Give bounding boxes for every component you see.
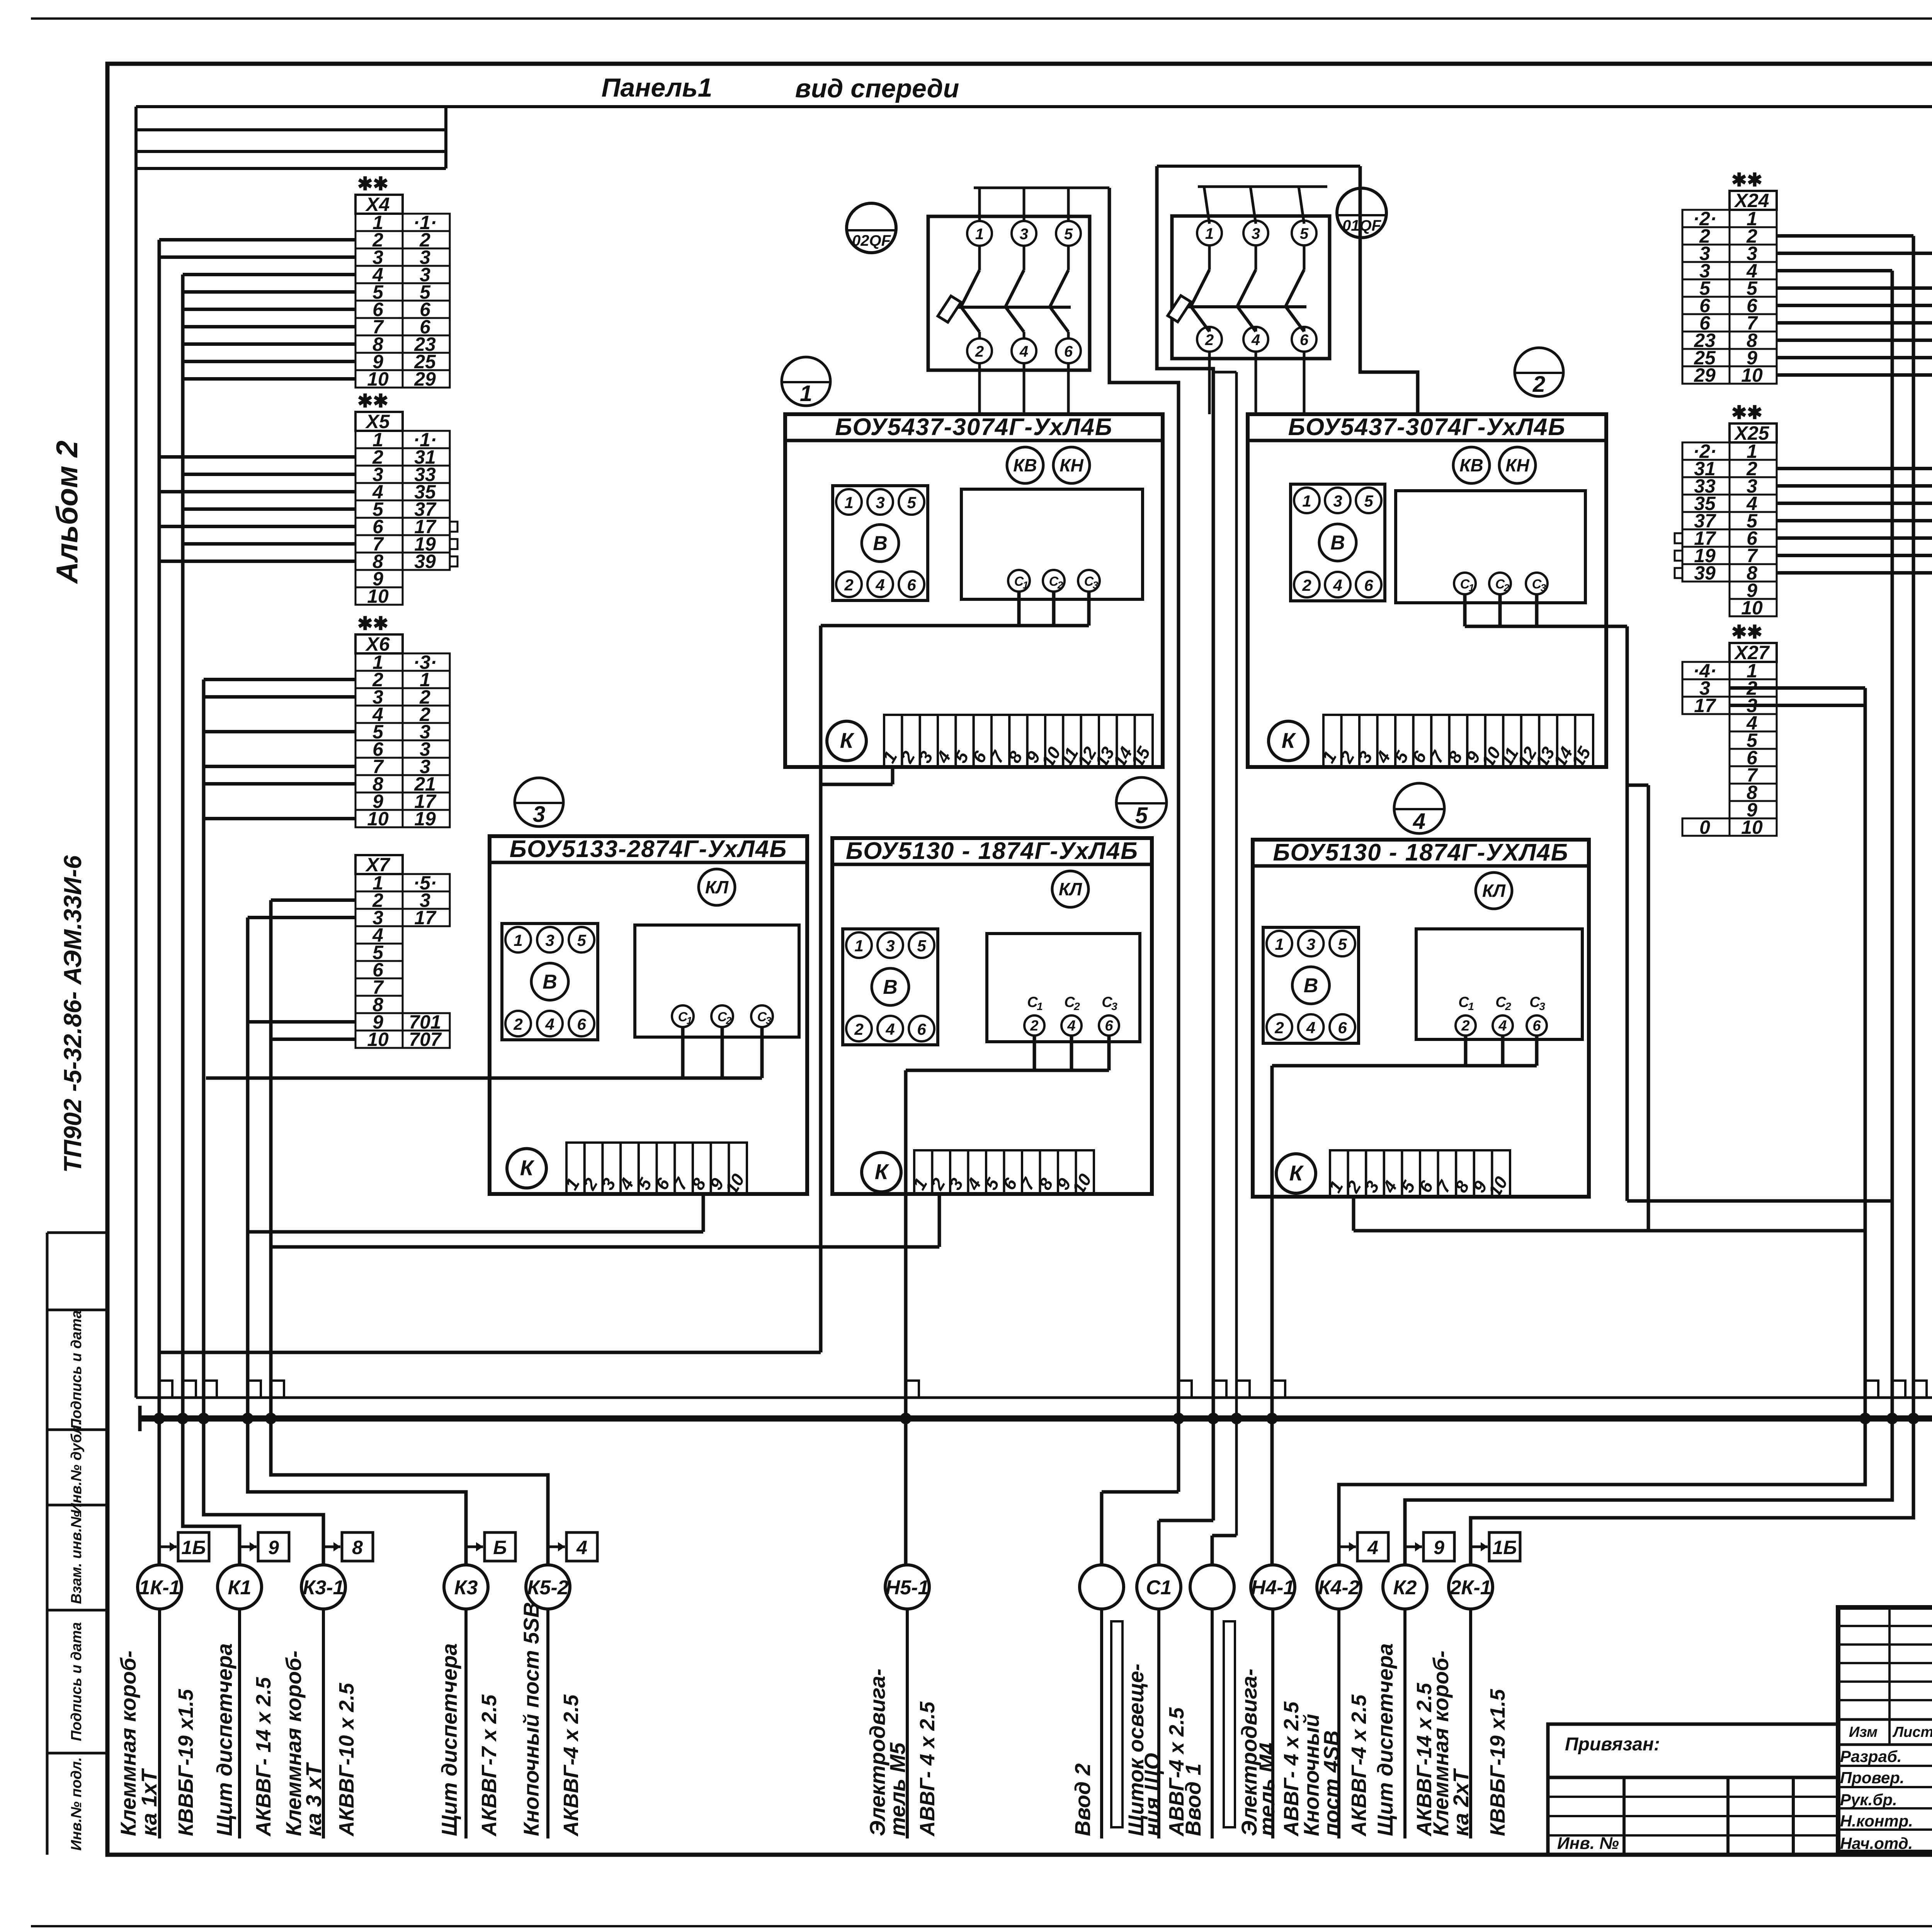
svg-text:2: 2 [1205,332,1214,349]
svg-text:КВ: КВ [1459,455,1483,475]
svg-text:5: 5 [907,493,916,512]
svg-text:Н5-1: Н5-1 [886,1577,929,1599]
svg-text:8: 8 [352,1537,363,1558]
svg-text:02QF: 02QF [852,232,891,249]
svg-text:2: 2 [1461,1018,1469,1034]
svg-text:3: 3 [876,493,884,512]
svg-text:С: С [1027,994,1038,1010]
svg-text:АКВВГ-4 х 2.5: АКВВГ-4 х 2.5 [1347,1694,1371,1837]
svg-text:1: 1 [514,931,522,949]
svg-text:АКВВГ-7 х 2.5: АКВВГ-7 х 2.5 [478,1694,501,1837]
svg-text:10: 10 [367,585,389,607]
svg-text:В: В [1330,532,1345,554]
svg-text:6: 6 [577,1015,586,1033]
svg-text:1: 1 [1468,1000,1474,1012]
svg-text:4: 4 [875,576,884,594]
svg-text:10: 10 [1741,816,1763,838]
svg-text:КВВБГ-19 х1.5: КВВБГ-19 х1.5 [1486,1689,1509,1836]
svg-text:пост 4SВ: пост 4SВ [1319,1730,1344,1836]
svg-text:39: 39 [414,551,436,572]
svg-text:АКВВГ-10 х 2.5: АКВВГ-10 х 2.5 [335,1683,358,1837]
svg-text:17: 17 [414,907,437,929]
svg-text:1: 1 [1023,579,1028,591]
svg-text:К4-2: К4-2 [1318,1577,1359,1599]
svg-text:3: 3 [1333,492,1342,510]
svg-text:КЛ: КЛ [1482,881,1506,901]
svg-text:К1: К1 [228,1577,252,1599]
svg-text:19: 19 [414,808,436,830]
svg-text:3: 3 [766,1015,772,1026]
svg-text:3: 3 [1020,226,1028,243]
svg-text:В: В [1304,975,1318,997]
svg-text:3: 3 [886,937,895,955]
svg-text:2: 2 [1030,1018,1038,1034]
svg-text:3: 3 [545,931,554,949]
svg-text:К: К [840,728,855,753]
svg-text:2: 2 [1532,372,1545,397]
svg-text:1: 1 [687,1015,692,1026]
svg-text:5: 5 [1135,803,1148,828]
svg-text:К3: К3 [454,1577,478,1599]
svg-text:Нач.отд.: Нач.отд. [1840,1834,1913,1852]
svg-text:Б: Б [493,1537,507,1558]
svg-text:10: 10 [367,368,389,390]
svg-text:1: 1 [854,937,863,955]
svg-text:707: 707 [409,1029,442,1050]
svg-text:5: 5 [1338,935,1347,953]
svg-text:1: 1 [1469,582,1474,594]
svg-text:1: 1 [1275,935,1284,953]
svg-text:Инв. №: Инв. № [1557,1834,1619,1853]
svg-text:С: С [1102,994,1112,1010]
svg-text:КВ: КВ [1013,455,1037,475]
svg-text:КЛ: КЛ [1059,879,1082,899]
svg-text:9: 9 [1434,1537,1444,1558]
svg-text:3: 3 [1306,935,1315,953]
svg-text:✱✱: ✱✱ [357,391,388,412]
svg-text:С: С [1458,994,1469,1010]
svg-text:9: 9 [268,1537,279,1558]
svg-text:4: 4 [1498,1018,1507,1034]
svg-text:В: В [883,976,898,998]
svg-text:Привязан:: Привязан: [1565,1734,1660,1755]
svg-text:Щит диспетчера: Щит диспетчера [437,1643,461,1836]
svg-text:10: 10 [1741,597,1763,619]
svg-text:2: 2 [1274,1019,1284,1037]
svg-text:2: 2 [513,1015,522,1033]
svg-text:С1: С1 [1146,1577,1172,1599]
svg-text:5: 5 [917,937,926,955]
svg-text:✱✱: ✱✱ [357,174,388,194]
svg-text:БОУ5130 - 1874Г-УхЛ4Б: БОУ5130 - 1874Г-УхЛ4Б [846,838,1138,864]
svg-text:Подпись и дата: Подпись и дата [68,1622,85,1741]
svg-text:3: 3 [1093,579,1099,591]
svg-text:Взам. инв.№: Взам. инв.№ [68,1511,85,1604]
svg-text:БОУ5437-3074Г-УхЛ4Б: БОУ5437-3074Г-УхЛ4Б [835,414,1113,440]
svg-text:Разраб.: Разраб. [1840,1747,1902,1765]
svg-text:2: 2 [975,343,984,360]
svg-text:1: 1 [1302,492,1311,510]
svg-text:4: 4 [1413,809,1425,834]
svg-text:К: К [1282,728,1296,753]
svg-text:10: 10 [367,808,389,830]
svg-text:1Б: 1Б [1492,1537,1517,1558]
svg-text:ния ЩО: ния ЩО [1140,1753,1164,1837]
svg-text:6: 6 [1300,332,1309,349]
svg-text:Инв.№ подл.: Инв.№ подл. [68,1757,85,1850]
svg-text:✱✱: ✱✱ [1731,170,1762,190]
svg-text:5: 5 [1364,492,1373,510]
svg-text:С: С [1495,994,1506,1010]
svg-text:тель М4: тель М4 [1255,1743,1279,1836]
svg-text:К: К [875,1160,889,1184]
svg-text:5: 5 [577,931,586,949]
svg-text:6: 6 [907,576,916,594]
svg-text:2: 2 [1503,582,1510,594]
svg-text:6: 6 [1364,576,1373,594]
svg-text:Лист: Лист [1892,1724,1932,1740]
svg-text:2: 2 [1073,1000,1080,1012]
svg-text:1Б: 1Б [181,1537,206,1558]
svg-text:вид спереди: вид спереди [795,74,959,103]
svg-text:2: 2 [726,1015,732,1026]
svg-text:Рук.бр.: Рук.бр. [1840,1791,1897,1809]
svg-text:01QF: 01QF [1342,217,1382,234]
svg-text:1: 1 [844,493,853,512]
svg-text:4: 4 [1306,1019,1315,1037]
svg-text:С: С [1064,994,1075,1010]
svg-text:ка 3 хТ: ка 3 хТ [301,1762,326,1836]
svg-text:4: 4 [1067,1018,1075,1034]
svg-text:Инв.№ дубл.: Инв.№ дубл. [68,1421,85,1514]
svg-text:Н.контр.: Н.контр. [1840,1812,1913,1830]
svg-text:4: 4 [545,1015,554,1033]
svg-text:4: 4 [885,1020,895,1038]
svg-text:К: К [1289,1161,1304,1185]
svg-text:Ввод 2: Ввод 2 [1070,1764,1095,1836]
svg-text:2: 2 [1057,579,1063,591]
svg-text:1К-1: 1К-1 [139,1577,180,1599]
svg-text:2К-1: 2К-1 [1449,1577,1491,1599]
svg-text:2: 2 [854,1020,863,1038]
svg-text:6: 6 [1064,343,1073,360]
svg-text:АКВВГ- 14 х 2.5: АКВВГ- 14 х 2.5 [252,1677,275,1837]
svg-text:Щит диспетчера: Щит диспетчера [212,1643,236,1836]
svg-text:6: 6 [1105,1018,1113,1034]
svg-text:4: 4 [576,1537,587,1558]
svg-text:3: 3 [1539,1000,1545,1012]
svg-text:БОУ5133-2874Г-УхЛ4Б: БОУ5133-2874Г-УхЛ4Б [510,836,787,862]
svg-text:КН: КН [1505,455,1529,475]
svg-text:АВВГ- 4 х 2.5: АВВГ- 4 х 2.5 [916,1701,939,1837]
svg-text:Подпись и дата: Подпись и дата [68,1310,85,1429]
svg-text:ТП902 -5-32.86- АЭМ.33И-6: ТП902 -5-32.86- АЭМ.33И-6 [59,855,87,1173]
svg-text:Щит диспетчера: Щит диспетчера [1373,1643,1397,1836]
svg-text:2: 2 [1505,1000,1511,1012]
svg-text:АКВВГ-4 х 2.5: АКВВГ-4 х 2.5 [560,1694,583,1837]
svg-text:КВВБГ-19 х1.5: КВВБГ-19 х1.5 [174,1689,197,1836]
svg-text:К3-1: К3-1 [303,1577,344,1599]
svg-text:КЛ: КЛ [705,877,729,897]
svg-text:10: 10 [367,1029,389,1050]
svg-text:К5-2: К5-2 [527,1577,568,1599]
svg-text:4: 4 [1367,1537,1378,1558]
svg-text:5: 5 [1300,225,1309,242]
svg-text:6: 6 [1532,1018,1541,1034]
svg-text:✱✱: ✱✱ [357,614,388,634]
svg-text:Провер.: Провер. [1840,1769,1905,1787]
svg-text:✱✱: ✱✱ [1731,403,1762,423]
svg-text:39: 39 [1694,562,1716,584]
svg-text:6: 6 [1338,1019,1347,1037]
svg-text:С: С [1529,994,1540,1010]
svg-text:Н4-1: Н4-1 [1251,1577,1295,1599]
svg-text:БОУ5130 - 1874Г-УХЛ4Б: БОУ5130 - 1874Г-УХЛ4Б [1273,839,1568,866]
svg-text:В: В [543,971,557,993]
svg-text:1: 1 [975,226,984,243]
svg-text:КН: КН [1060,455,1083,475]
svg-text:Ввод 1: Ввод 1 [1181,1764,1205,1836]
svg-text:1: 1 [1205,225,1214,242]
svg-text:3: 3 [1111,1000,1117,1012]
svg-text:1: 1 [800,381,812,406]
svg-text:1: 1 [1037,1000,1043,1012]
svg-text:Альбом 2: Альбом 2 [50,440,84,584]
svg-text:0: 0 [1699,816,1710,838]
svg-text:10: 10 [1741,364,1763,386]
svg-text:ка 1хТ: ка 1хТ [137,1768,161,1836]
svg-text:29: 29 [414,368,436,390]
svg-text:17: 17 [1694,695,1716,716]
svg-text:✱✱: ✱✱ [1731,622,1762,643]
svg-text:Изм: Изм [1849,1724,1878,1740]
svg-text:В: В [873,532,888,555]
svg-text:5: 5 [1064,226,1073,243]
svg-text:тель М5: тель М5 [885,1742,910,1836]
svg-text:29: 29 [1694,364,1716,386]
svg-text:Кнопочный пост 5SВ: Кнопочный пост 5SВ [519,1602,543,1836]
svg-text:К: К [520,1156,535,1180]
svg-text:2: 2 [1302,576,1311,594]
svg-text:Панель1: Панель1 [602,73,713,102]
svg-text:3: 3 [533,802,545,827]
svg-text:К2: К2 [1393,1577,1417,1599]
svg-text:4: 4 [1251,332,1260,349]
svg-text:2: 2 [844,576,853,594]
svg-text:3: 3 [1252,225,1260,242]
svg-text:3: 3 [1541,582,1546,594]
svg-text:4: 4 [1333,576,1342,594]
svg-text:ка 2хТ: ка 2хТ [1449,1768,1473,1836]
svg-text:4: 4 [1019,343,1028,360]
svg-text:БОУ5437-3074Г-УхЛ4Б: БОУ5437-3074Г-УхЛ4Б [1288,414,1566,440]
svg-text:6: 6 [917,1020,926,1038]
